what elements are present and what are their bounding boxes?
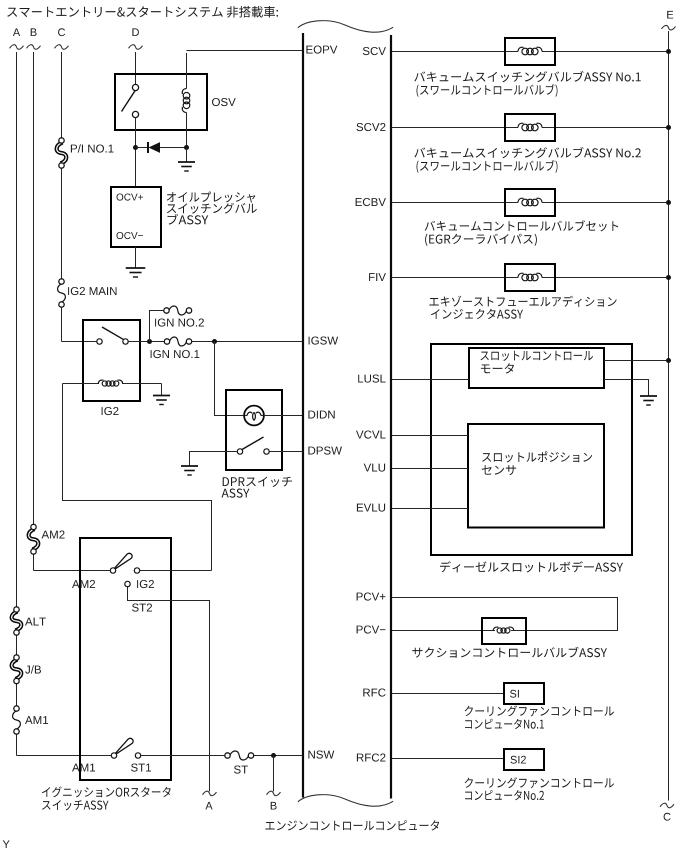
fuse IG2 MAIN: [58, 279, 117, 307]
node IGN branch junction: [147, 339, 152, 344]
wire SCV2 row: [392, 127, 669, 129]
label suction control valve assy: [412, 647, 607, 658]
ground throttle motor: [640, 396, 657, 405]
label throttle position sensor: [482, 451, 592, 475]
wire RFC2: [392, 758, 504, 760]
ground below OCV: [126, 247, 146, 277]
relay IG2 coil: [63, 380, 162, 386]
label NSW: [308, 751, 334, 759]
fusible link J/B: [12, 655, 41, 684]
node D top: [129, 28, 143, 49]
label cooling fan computer no.2: [465, 777, 614, 800]
wire IGSW row: [128, 341, 303, 343]
solenoid suction control valve: [482, 618, 526, 644]
wire to node B bottom: [273, 756, 275, 792]
switch DPSW contacts: [237, 437, 269, 454]
fusible link AM2: [29, 524, 65, 554]
wire C rail: [62, 52, 98, 342]
wire EOPV from coil to ECU: [187, 50, 304, 52]
wire motor to ground: [604, 380, 649, 397]
labels AM1 ST1: [72, 764, 151, 772]
wire ST2 to node A bottom: [128, 587, 210, 792]
relay OSV coil: [182, 53, 190, 148]
contact ST2: [125, 581, 152, 611]
label PCV-: [357, 626, 386, 634]
pin OCV-: [117, 232, 144, 239]
label oil pressure switching valve assy: [167, 192, 257, 225]
wire B rail: [34, 52, 111, 571]
wire LUSL: [392, 379, 469, 381]
node E junction FIV: [666, 275, 671, 280]
wire IGN NO.2 branch: [150, 311, 165, 342]
relay IG2 switch contacts: [97, 327, 128, 344]
node E junction motor: [666, 358, 671, 363]
ECU torn top edge: [298, 21, 393, 33]
cooling fan computer no.1 box: [504, 683, 544, 704]
ECU right border: [390, 35, 392, 799]
label LUSL: [358, 375, 385, 383]
cooling fan computer no.2 box: [504, 749, 544, 770]
label RFC: [363, 689, 385, 697]
switch ignition-or-starter box: [80, 538, 171, 780]
wire VCVL: [356, 431, 468, 439]
node E junction ECBV: [666, 200, 671, 205]
label PCV+: [357, 593, 386, 601]
wire PCV-: [392, 630, 482, 632]
connector OCV box: [111, 187, 161, 247]
label ignition OR starter switch assy: [42, 786, 171, 810]
wire NSW row: [141, 755, 303, 757]
ground right of IG2 coil: [153, 384, 170, 405]
node E junction SCV2: [666, 125, 671, 130]
contact AM1 ST1 lever: [111, 738, 140, 758]
wire FIV row: [392, 277, 669, 279]
diode D1: [136, 142, 187, 153]
throttle body outer box: [431, 344, 632, 555]
relay IG2 box: [83, 320, 140, 401]
label SCV: [363, 47, 386, 55]
wire SCV row: [392, 51, 669, 53]
ECU left border: [302, 33, 304, 798]
wire RFC: [392, 693, 504, 695]
label DPR switch assy: [222, 477, 292, 498]
label DIDN: [308, 411, 334, 419]
label IGSW: [309, 337, 339, 345]
label diesel throttle body assy: [440, 561, 623, 572]
wire D rail: [135, 52, 137, 85]
wire PCV+ loop: [392, 598, 618, 631]
fuse IGN NO.1: [151, 337, 200, 358]
label ECBV description: [425, 220, 619, 246]
node Y: [3, 840, 10, 848]
relay OSV switch contacts: [122, 84, 139, 117]
label throttle control motor: [481, 351, 594, 374]
lamp DIDN indicator: [244, 406, 264, 426]
label RFC2: [357, 754, 386, 762]
title text: [7, 6, 278, 18]
wire EVLU: [357, 504, 468, 512]
node A top: [10, 28, 24, 49]
wire DIDN to ECU: [264, 415, 303, 417]
wire switch to diode node: [135, 118, 137, 188]
node A bottom: [203, 791, 217, 809]
solenoid valve FIV: [505, 264, 555, 291]
fuse AM1: [13, 706, 49, 734]
fuse ST: [225, 751, 254, 774]
label SCV2 description: [414, 147, 641, 173]
wire ECBV row: [392, 202, 669, 204]
wire motor to E rail: [604, 360, 669, 362]
node diode-left junction: [133, 145, 138, 150]
wire A rail: [17, 52, 112, 756]
wire DPR switch to ground: [190, 452, 238, 467]
label engine control computer: [265, 820, 439, 830]
node DPR branch junction: [212, 339, 217, 344]
node B top: [27, 28, 41, 49]
connector DPR box: [226, 390, 282, 470]
relay OSV box: [115, 74, 207, 130]
node C top: [55, 28, 69, 49]
contact AM2 lever: [110, 553, 139, 573]
throttle control motor box: [469, 348, 604, 388]
pin OCV+: [117, 194, 144, 201]
node C bottom: [660, 803, 674, 820]
node B bottom junction: [271, 753, 276, 758]
solenoid valve SCV2: [505, 114, 555, 141]
wire DPSW to ECU: [269, 451, 303, 453]
wire IG2 terminal: [140, 570, 212, 572]
solenoid valve ECBV: [505, 189, 555, 216]
ECU torn bottom edge: [298, 795, 393, 807]
throttle position sensor box: [468, 424, 604, 528]
label FIV description: [429, 296, 616, 319]
fusible link ALT: [12, 607, 46, 635]
label ECBV: [356, 198, 386, 206]
label SCV2: [357, 123, 386, 131]
node E top: [662, 11, 676, 30]
node B bottom: [267, 791, 281, 809]
wire IG2 coil to ignition switch IG2 terminal: [63, 384, 212, 571]
fuse IGN NO.2: [155, 306, 204, 327]
label EOPV: [306, 46, 337, 54]
label SCV description: [414, 71, 640, 97]
label OSV: [212, 98, 236, 106]
wire to DPR lamp: [215, 342, 245, 416]
wire VLU: [364, 464, 468, 472]
node E junction SCV: [666, 49, 671, 54]
label IG2 relay: [102, 407, 119, 415]
node coil-ground junction: [184, 145, 189, 150]
wire E rail: [668, 31, 670, 801]
label FIV: [369, 273, 386, 281]
fusible link P/I NO.1: [57, 138, 114, 168]
label DPSW: [308, 447, 342, 455]
labels AM2 IG2 ST2: [72, 580, 154, 588]
ground DPR: [181, 466, 198, 475]
ground below OSV coil: [178, 148, 195, 172]
label cooling fan computer no.1: [465, 705, 614, 729]
solenoid valve SCV: [505, 38, 555, 65]
